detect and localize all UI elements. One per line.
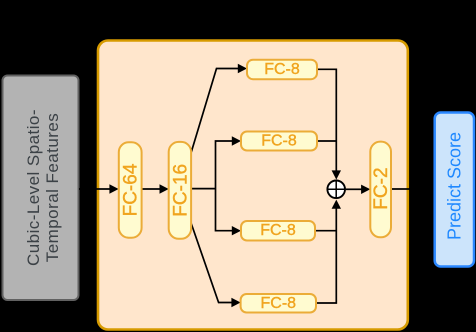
svg-text:FC-8: FC-8	[260, 222, 296, 239]
svg-text:FC-8: FC-8	[261, 295, 297, 312]
svg-text:FC-64: FC-64	[121, 163, 142, 216]
svg-text:Cubic-Level Spatio-: Cubic-Level Spatio-	[24, 109, 43, 266]
svg-text:FC-8: FC-8	[264, 61, 300, 78]
svg-text:FC-8: FC-8	[261, 133, 297, 150]
svg-text:FC-2: FC-2	[371, 167, 392, 209]
svg-text:Predict Score: Predict Score	[444, 132, 464, 240]
svg-text:FC-16: FC-16	[170, 164, 191, 217]
svg-text:Temporal Features: Temporal Features	[43, 113, 62, 262]
